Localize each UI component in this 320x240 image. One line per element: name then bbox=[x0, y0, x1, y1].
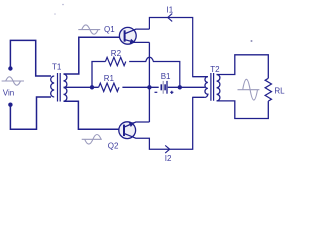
svg-text:RL: RL bbox=[274, 86, 285, 95]
svg-text:I1: I1 bbox=[167, 5, 174, 14]
svg-text:R1: R1 bbox=[104, 74, 115, 83]
svg-text:B1: B1 bbox=[161, 72, 171, 81]
svg-text:Q1: Q1 bbox=[104, 25, 115, 34]
svg-text:T1: T1 bbox=[52, 63, 62, 72]
svg-text:I2: I2 bbox=[165, 154, 172, 163]
svg-text:R2: R2 bbox=[111, 49, 122, 58]
svg-text:T2: T2 bbox=[210, 65, 220, 74]
svg-text:Q2: Q2 bbox=[108, 141, 119, 150]
svg-text:Vin: Vin bbox=[3, 89, 14, 98]
